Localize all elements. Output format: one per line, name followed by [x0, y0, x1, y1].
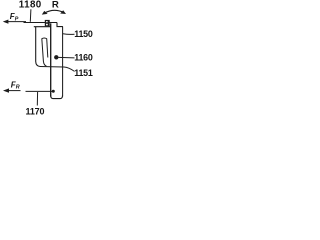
- top plate top surface: [24, 22, 58, 24]
- svg-text:1160: 1160: [74, 52, 93, 62]
- svg-text:1180: 1180: [19, 0, 42, 11]
- tapered slot right edge: [47, 39, 48, 58]
- force arrowhead Fp: [3, 20, 9, 24]
- tapered slot closed top: [42, 37, 47, 40]
- internal ledge line merging into leader 1151: [40, 67, 75, 72]
- leader tick 1170: [36, 92, 38, 106]
- leader line 1150: [63, 33, 75, 36]
- leader line 1180: [29, 9, 32, 21]
- svg-text:1151: 1151: [74, 68, 93, 78]
- force arrow Fp: [6, 21, 26, 23]
- background: [0, 0, 96, 120]
- inner wall of lower leg: [50, 23, 52, 96]
- svg-text:1150: 1150: [74, 29, 93, 39]
- force arrow Fr: [7, 90, 21, 92]
- right wall of member 1150: [62, 27, 64, 97]
- left wall with J-curve bottom: [36, 27, 41, 67]
- rotation arrowhead right: [60, 10, 66, 14]
- force arrowhead Fr: [3, 88, 9, 92]
- rod 1170 horizontal line: [26, 90, 53, 92]
- bottom U of lower leg: [51, 96, 63, 99]
- small fitting block on top plate: [45, 20, 50, 26]
- rotation arrowhead left: [42, 11, 48, 15]
- pivot pin 1160: [54, 55, 58, 59]
- svg-text:1170: 1170: [26, 106, 45, 116]
- top plate underside: [34, 26, 51, 28]
- rotation arc R: [44, 10, 64, 13]
- rod 1170 end dot: [52, 90, 55, 93]
- leader line 1160: [58, 56, 74, 59]
- svg-text:R: R: [52, 0, 59, 10]
- top plate right step: [57, 23, 63, 27]
- tapered slot left edge: [42, 39, 47, 67]
